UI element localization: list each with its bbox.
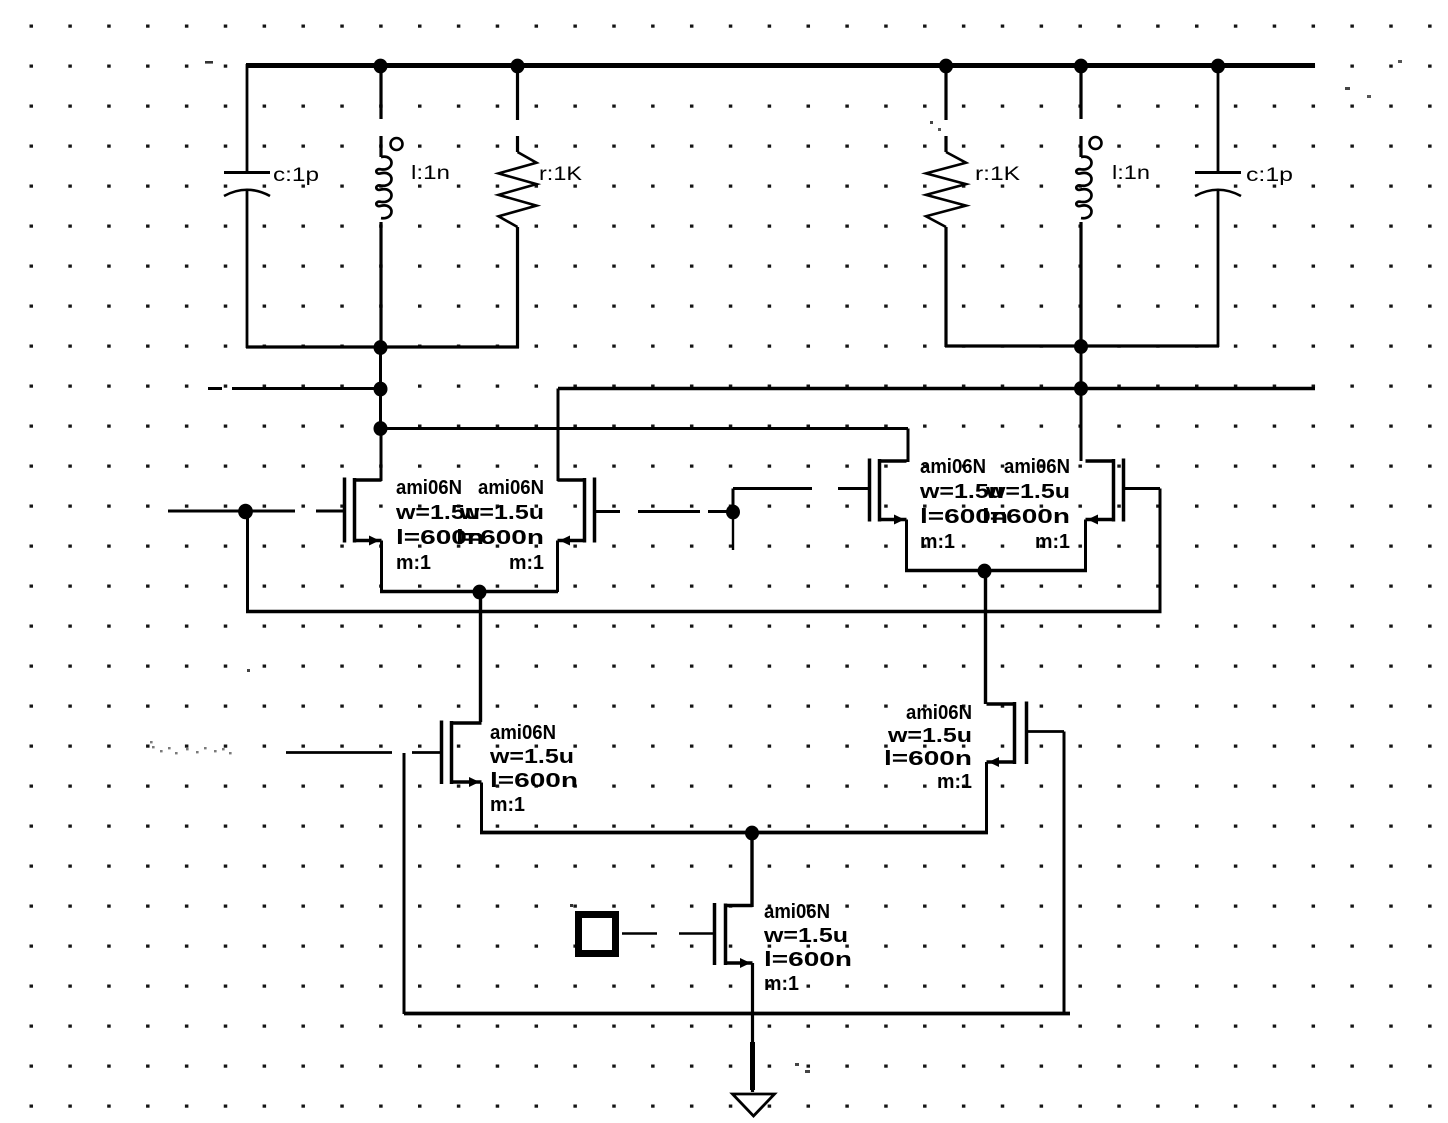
svg-text:r:1K: r:1K — [975, 164, 1020, 185]
svg-text:l:1n: l:1n — [1112, 163, 1150, 184]
svg-text:ami06N: ami06N — [764, 900, 830, 923]
svg-text:c:1p: c:1p — [1246, 165, 1293, 186]
svg-text:ami06N: ami06N — [906, 701, 972, 724]
svg-text:l:1n: l:1n — [411, 163, 450, 184]
svg-text:m:1: m:1 — [490, 793, 525, 816]
svg-text:m:1: m:1 — [920, 530, 955, 553]
svg-text:ami06N: ami06N — [490, 721, 556, 744]
svg-text:l=600n: l=600n — [884, 747, 972, 770]
svg-text:ami06N: ami06N — [478, 476, 544, 499]
svg-text:w=1.5u: w=1.5u — [489, 745, 574, 768]
svg-text:m:1: m:1 — [509, 551, 544, 574]
svg-text:l=600n: l=600n — [982, 505, 1070, 528]
svg-text:w=1.5u: w=1.5u — [887, 724, 972, 747]
svg-text:l=600n: l=600n — [490, 769, 578, 792]
svg-text:r:1K: r:1K — [539, 164, 582, 185]
svg-text:m:1: m:1 — [937, 770, 972, 793]
svg-text:l=600n: l=600n — [456, 526, 544, 549]
svg-text:ami06N: ami06N — [920, 455, 986, 478]
svg-text:w=1.5u: w=1.5u — [985, 480, 1070, 503]
svg-text:m:1: m:1 — [396, 551, 431, 574]
svg-text:m:1: m:1 — [1035, 530, 1070, 553]
svg-text:w=1.5u: w=1.5u — [763, 924, 848, 947]
svg-text:l=600n: l=600n — [764, 948, 852, 971]
svg-text:c:1p: c:1p — [273, 165, 319, 186]
svg-text:w=1.5u: w=1.5u — [459, 501, 544, 524]
svg-text:ami06N: ami06N — [1004, 455, 1070, 478]
svg-text:m:1: m:1 — [764, 972, 799, 995]
svg-text:ami06N: ami06N — [396, 476, 462, 499]
